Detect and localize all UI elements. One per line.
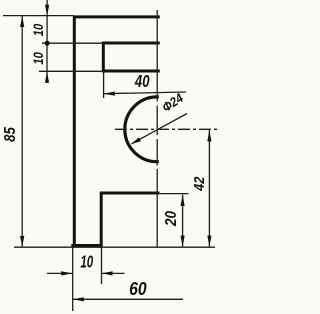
svg-text:20: 20 xyxy=(163,210,180,227)
svg-text:85: 85 xyxy=(2,126,19,142)
svg-text:10: 10 xyxy=(31,52,46,64)
svg-text:10: 10 xyxy=(80,253,93,272)
svg-text:40: 40 xyxy=(134,72,150,91)
svg-text:10: 10 xyxy=(31,24,46,36)
svg-text:42: 42 xyxy=(190,176,207,191)
svg-text:60: 60 xyxy=(129,278,147,300)
